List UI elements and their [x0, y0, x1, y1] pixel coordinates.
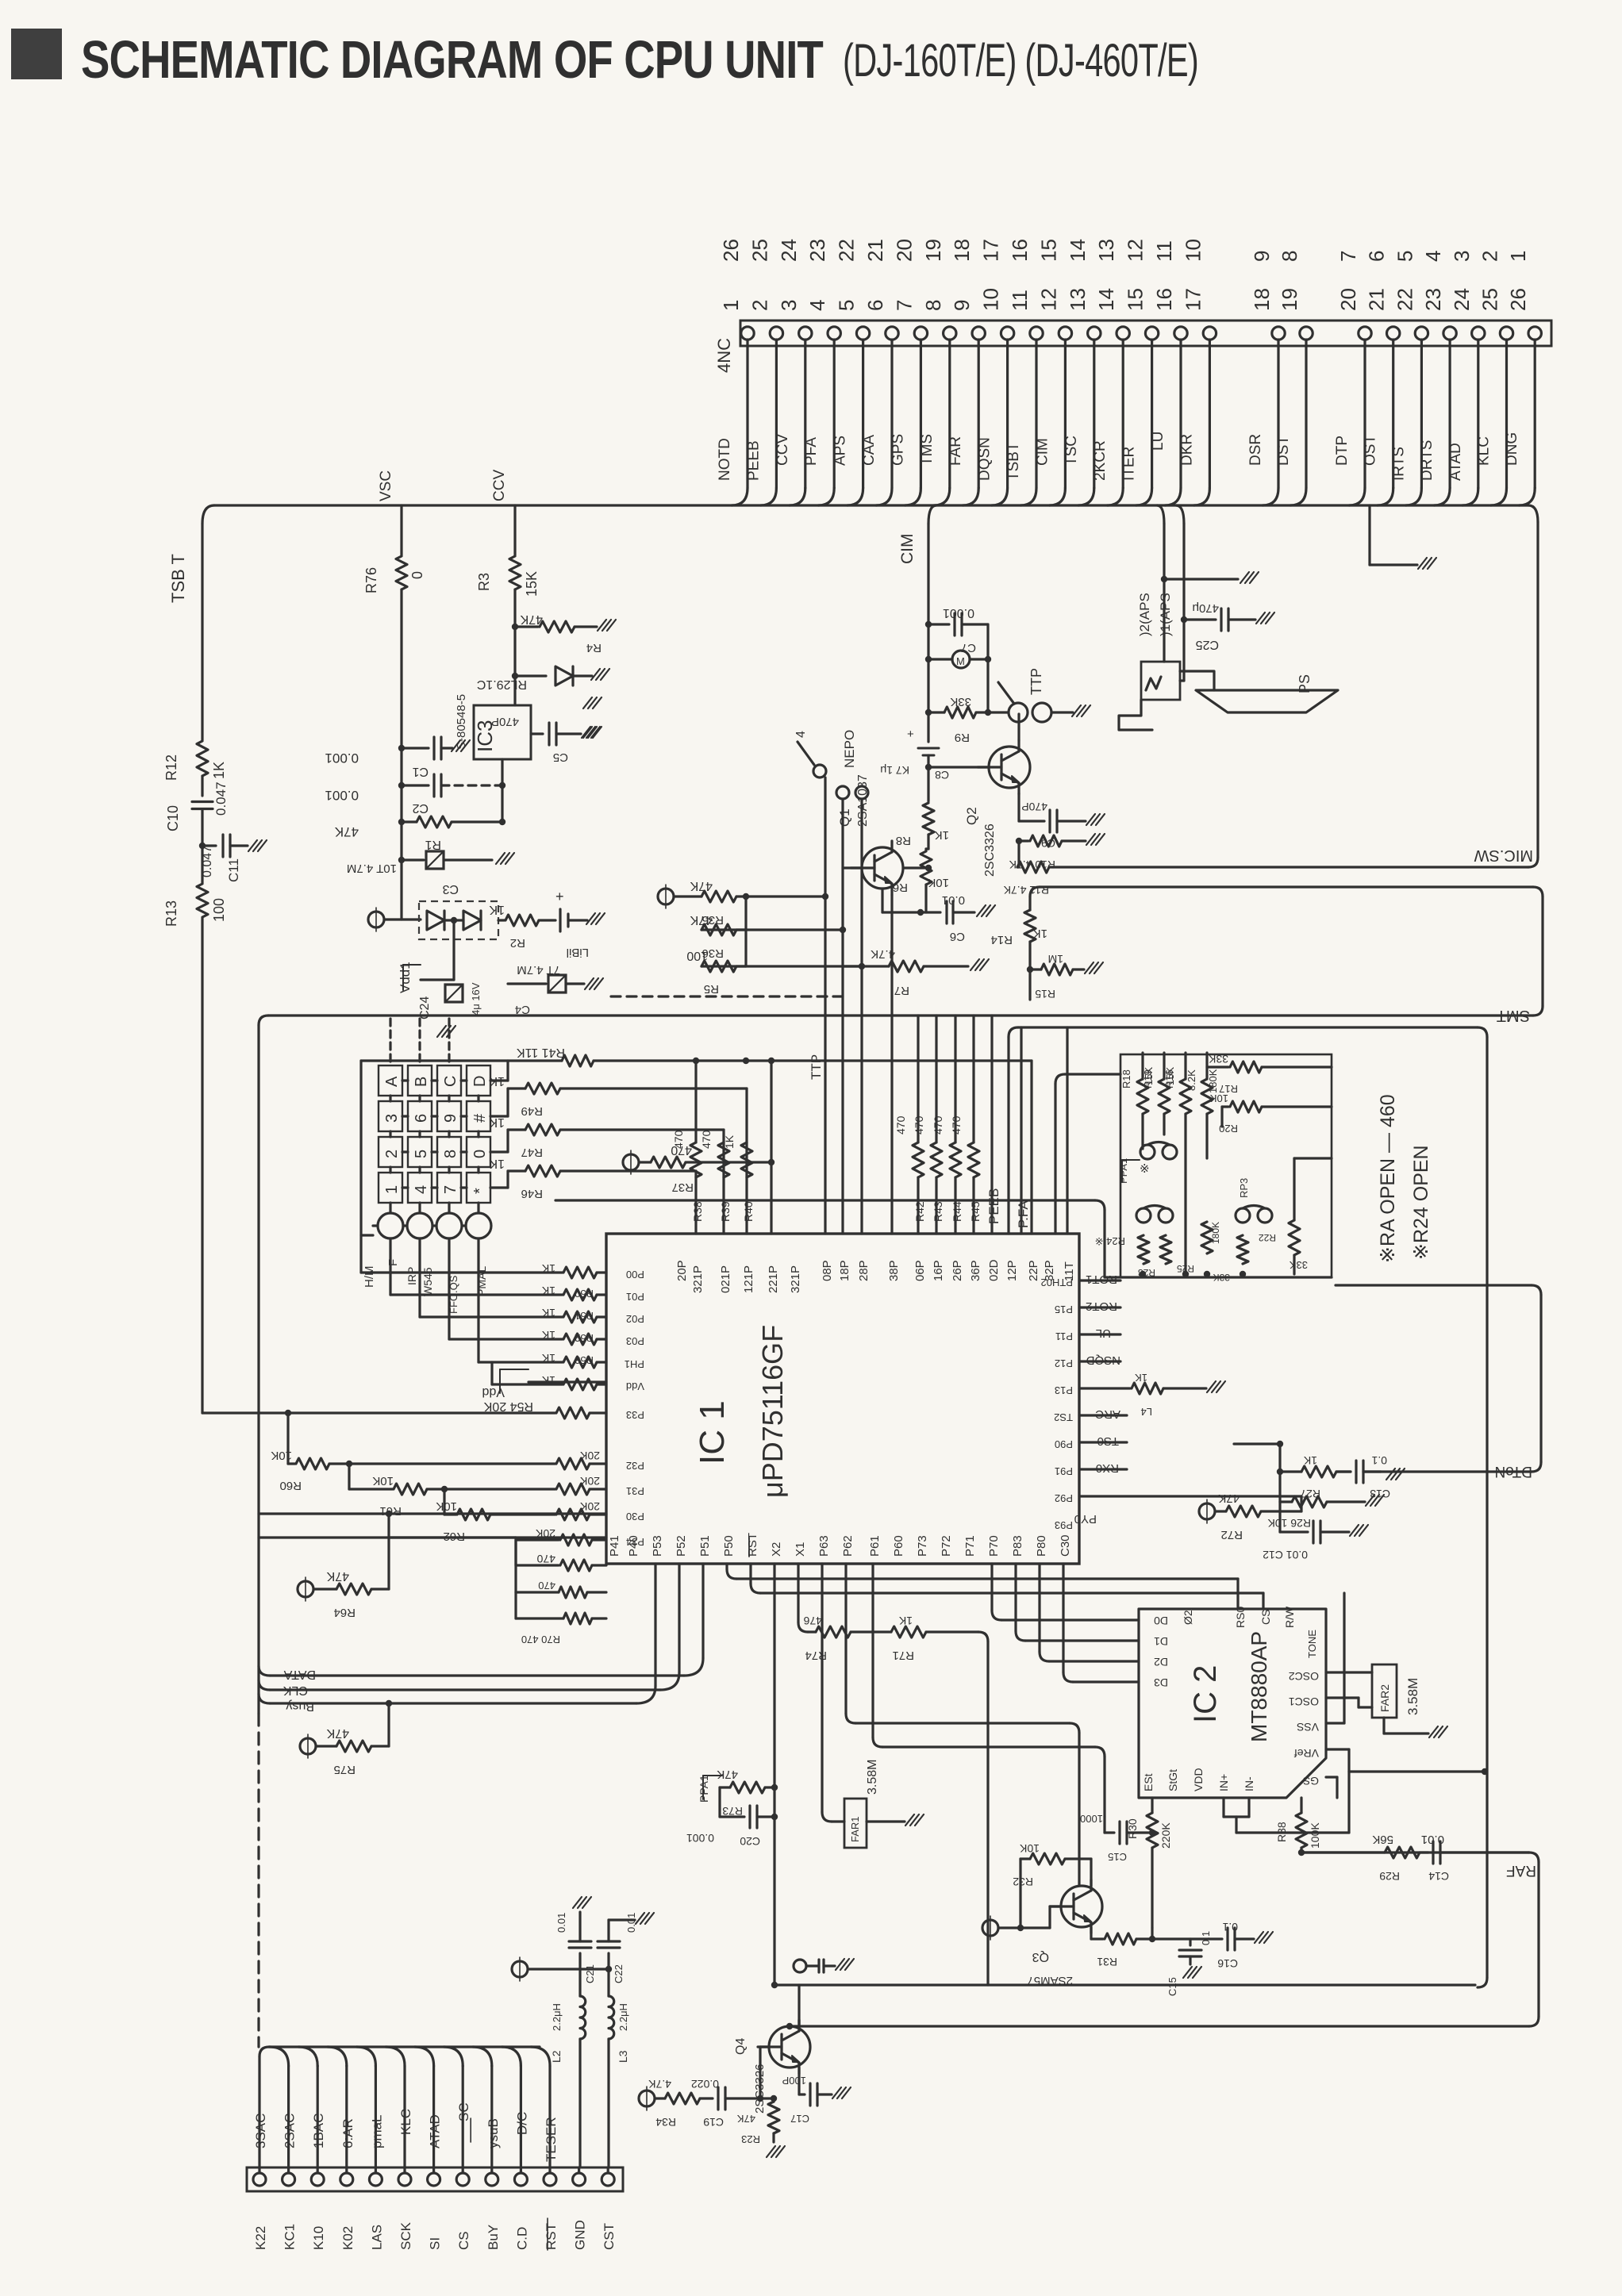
svg-text:IRP: IRP [405, 1267, 418, 1285]
wire [722, 1130, 725, 1234]
wire CN4 pin 17 [1209, 340, 1211, 488]
svg-text:S-80548-5: S-80548-5 [455, 694, 468, 750]
svg-text:Q3: Q3 [1032, 1950, 1049, 1964]
svg-text:33K: 33K [1290, 1259, 1308, 1271]
svg-text:FAR2: FAR2 [1378, 1684, 1391, 1712]
svg-text:X2: X2 [770, 1542, 783, 1557]
key B [408, 1065, 432, 1096]
resistor R49 (# row) [490, 1115, 508, 1117]
wire [607, 1969, 609, 1996]
wire CN4 pin 2 [775, 340, 778, 488]
svg-text:2SAM57: 2SAM57 [1027, 1974, 1073, 1987]
svg-text:SI: SI [428, 2237, 443, 2250]
svg-text:R24 ※: R24 ※ [1095, 1235, 1125, 1247]
svg-text:P11: P11 [1055, 1330, 1073, 1342]
svg-text:MIC.SW: MIC.SW [1474, 847, 1533, 864]
wire T BST trunk lower [201, 918, 203, 1413]
wire CN4 pin 22 [1420, 340, 1423, 488]
svg-text:R8: R8 [896, 834, 911, 847]
svg-text:2SA1037: 2SA1037 [856, 774, 870, 827]
resistor R45 [972, 1016, 974, 1142]
resistor R20 [1222, 1105, 1228, 1108]
svg-text:47K: 47K [690, 879, 713, 893]
CN4 pin 8 circle [944, 327, 956, 340]
wire [986, 624, 989, 712]
svg-text:47K: 47K [717, 1768, 738, 1781]
svg-text:TS0: TS0 [1097, 1434, 1119, 1448]
svg-text:C25: C25 [1196, 638, 1219, 651]
wire [841, 799, 844, 1234]
svg-text:1K: 1K [489, 1157, 505, 1170]
resistor R62 [443, 1489, 445, 1515]
svg-text:CIM: CIM [898, 534, 917, 565]
svg-text:MT8880AP: MT8880AP [1247, 1631, 1271, 1742]
svg-text:0.01 C12: 0.01 C12 [1263, 1549, 1308, 1561]
svg-text:R18: R18 [1120, 1069, 1132, 1088]
ground [586, 913, 595, 924]
wire dashed keypad top feeds [389, 1019, 391, 1065]
capacitor C15c [1151, 1928, 1153, 1939]
svg-text:RX0: RX0 [1096, 1461, 1119, 1475]
wire [492, 1383, 563, 1385]
svg-text:7: 7 [442, 1185, 459, 1194]
svg-text:RP3: RP3 [1238, 1178, 1250, 1198]
wire CN4 pin 25 [1505, 340, 1508, 488]
wire [1030, 1061, 1032, 1234]
wire CN4 pin 11 [1035, 340, 1037, 488]
ground [1085, 962, 1094, 973]
svg-text:C2: C2 [412, 801, 429, 815]
transistor Q2 [989, 747, 1030, 788]
wire SPA(1) [1176, 505, 1184, 524]
svg-text:47K: 47K [326, 1726, 349, 1740]
wire OSC2 [1326, 1671, 1372, 1673]
resistor keypad row 2 1K [563, 1289, 597, 1300]
wire CS [462, 2066, 464, 2173]
resistor R22 [1289, 1220, 1300, 1255]
diode D4 [463, 911, 481, 930]
svg-text:C15: C15 [1167, 1977, 1178, 1996]
resistor R55 [556, 1458, 590, 1469]
svg-text:10: 10 [979, 288, 1003, 311]
key 3 [379, 1101, 402, 1131]
svg-text:1: 1 [1506, 251, 1530, 262]
ground [496, 853, 505, 864]
svg-text:R49: R49 [521, 1104, 543, 1118]
resistor R27 [1301, 1466, 1336, 1477]
resistor R14 [1028, 897, 1031, 910]
CN4 pin 7 circle [914, 327, 927, 340]
wire key row link [402, 1186, 408, 1188]
svg-text:NOTD: NOTD [717, 438, 733, 481]
svg-text:3: 3 [777, 300, 801, 311]
svg-text:P53: P53 [651, 1535, 664, 1557]
capacitor C7 [928, 623, 949, 625]
svg-text:R72: R72 [1220, 1528, 1243, 1542]
svg-text:10K: 10K [271, 1449, 292, 1462]
wire CN4 pin 5 [862, 340, 864, 488]
svg-text:10: 10 [1181, 239, 1205, 262]
svg-text:4: 4 [805, 300, 829, 311]
key 6 [408, 1101, 432, 1131]
svg-text:C20: C20 [740, 1835, 760, 1848]
svg-text:CCV: CCV [491, 470, 508, 501]
wire Q1 collector [881, 889, 883, 912]
svg-text:R26 10K: R26 10K [1267, 1517, 1311, 1530]
resistor R38 [690, 1142, 701, 1177]
svg-text:0.001: 0.001 [943, 606, 974, 620]
wire CAS3 trunk [258, 2056, 260, 2173]
wire CN4 pin 24 [1477, 340, 1479, 488]
svg-text:2: 2 [1478, 251, 1502, 262]
CN3 pin 11 circle [544, 2173, 556, 2186]
svg-text:5: 5 [413, 1150, 430, 1158]
svg-text:FAR1: FAR1 [849, 1816, 861, 1842]
svg-text:C6: C6 [950, 930, 965, 943]
wire keypad common drop [389, 1238, 391, 1295]
wire keypad common drop [418, 1238, 421, 1317]
svg-text:R47: R47 [521, 1146, 543, 1159]
CN4 pin 25 circle [1500, 327, 1512, 340]
wire [421, 978, 454, 981]
resistor R72 with terminal [1199, 1503, 1215, 1519]
svg-text:TSB T: TSB T [168, 554, 188, 603]
svg-text:4μ 16V: 4μ 16V [470, 982, 482, 1016]
svg-text:C: C [442, 1076, 459, 1087]
svg-text:470P: 470P [1021, 801, 1047, 813]
ground [1256, 612, 1265, 624]
resistor R54 [556, 1407, 590, 1419]
svg-text:08P: 08P [821, 1260, 834, 1281]
svg-text:C30: C30 [1059, 1534, 1072, 1557]
svg-text:4: 4 [794, 731, 808, 738]
svg-text:R/W: R/W [1283, 1606, 1296, 1628]
svg-text:16P: 16P [932, 1260, 945, 1281]
svg-text:LAS: LAS [369, 2225, 384, 2250]
svg-text:ysuB: ysuB [486, 2118, 501, 2148]
svg-text:R6: R6 [893, 881, 908, 894]
resistor R32 [1020, 1857, 1030, 1860]
inductor L2 [580, 1996, 586, 2039]
svg-text:100: 100 [686, 949, 708, 962]
wire [201, 776, 203, 796]
svg-text:C7: C7 [961, 641, 976, 655]
svg-text:C17: C17 [790, 2113, 809, 2125]
capacitor C20 [718, 1787, 721, 1817]
svg-text:P32: P32 [626, 1460, 644, 1472]
ground [1350, 1525, 1359, 1536]
svg-text:1K: 1K [541, 1352, 555, 1365]
svg-text:10T 4.7M: 10T 4.7M [347, 862, 397, 875]
wire [1066, 1027, 1068, 1234]
wire DATA [432, 2066, 435, 2173]
svg-text:16: 16 [1008, 239, 1032, 262]
svg-text:R42: R42 [913, 1201, 926, 1222]
resistor R10 [1016, 838, 1022, 844]
wire [798, 1985, 800, 2026]
svg-text:321P: 321P [789, 1265, 802, 1293]
wire T BST trunk upper [201, 524, 203, 740]
svg-text:470: 470 [932, 1115, 944, 1135]
net label RX0 [1079, 1468, 1127, 1470]
key 4 [408, 1173, 432, 1203]
svg-text:※: ※ [1140, 1162, 1150, 1176]
resistor R6 [924, 849, 927, 850]
resistor R26 [1278, 1472, 1281, 1502]
svg-text:pmaL: pmaL [369, 2114, 384, 2148]
wire dashed [611, 995, 847, 997]
transistor Q1 [862, 847, 903, 889]
microphone M [952, 651, 970, 668]
svg-text:C15: C15 [1108, 1851, 1127, 1863]
svg-text:1: 1 [383, 1185, 401, 1194]
wire Q4 base [759, 2047, 761, 2098]
wire CN4 pin 8 [948, 340, 951, 488]
wire D3 row [1062, 1564, 1064, 1672]
svg-text:Vdd1: Vdd1 [398, 962, 413, 993]
svg-text:0.001: 0.001 [325, 788, 359, 803]
capacitor C16 [1152, 1937, 1222, 1940]
jumper J2 [1136, 1208, 1151, 1223]
svg-text:C.D: C.D [514, 2227, 529, 2250]
resistor R30 220K [1151, 1798, 1153, 1813]
svg-text:0.001: 0.001 [325, 751, 359, 766]
svg-text:TS2: TS2 [1054, 1411, 1073, 1423]
svg-text:RS0: RS0 [1234, 1607, 1247, 1628]
wire dashed to IC3 [468, 784, 502, 786]
svg-text:20: 20 [892, 239, 916, 262]
capacitor C6 [945, 901, 947, 923]
wire CN4 pin 15 [1151, 340, 1153, 488]
svg-text:DToN: DToN [1494, 1463, 1532, 1480]
wire MIC.SW bus right edge [1536, 522, 1539, 858]
wire keypad top [361, 1059, 562, 1062]
capacitor C19 [717, 2087, 719, 2110]
wire CN4 pin 6 [890, 340, 893, 488]
ground [437, 1026, 446, 1037]
ground [582, 727, 590, 738]
switch S1 OPEN [798, 742, 814, 765]
svg-text:4: 4 [413, 1185, 430, 1194]
wire T10 bus [1007, 1037, 1009, 1234]
trimmer C3 [402, 858, 424, 861]
svg-text:OSC1: OSC1 [1289, 1695, 1319, 1708]
wire [384, 918, 421, 920]
svg-text:ATAD: ATAD [428, 2114, 443, 2148]
svg-text:P52: P52 [675, 1535, 688, 1557]
svg-text:2: 2 [383, 1150, 401, 1158]
svg-text:SCHEMATIC DIAGRAM OF CPU UNIT: SCHEMATIC DIAGRAM OF CPU UNIT [81, 30, 824, 90]
wire CN4 pin 1 [746, 340, 748, 488]
wire [986, 1641, 989, 1985]
svg-text:23: 23 [1421, 288, 1445, 311]
svg-text:5: 5 [835, 300, 859, 311]
svg-text:1K: 1K [541, 1262, 555, 1275]
svg-text:CST: CST [602, 2223, 617, 2250]
wire [1382, 1718, 1385, 1734]
net label PY0 [1079, 1495, 1301, 1497]
svg-text:100: 100 [211, 898, 227, 922]
svg-text:DATA: DATA [283, 1668, 316, 1681]
svg-text:P.FA: P.FA [1016, 1200, 1031, 1228]
wire DTON bus [1336, 1284, 1532, 1286]
ground [1429, 1726, 1438, 1737]
wire bottom bus 1 [774, 1983, 1475, 1986]
svg-text:3.58M: 3.58M [1405, 1678, 1420, 1715]
svg-text:H/M: H/M [363, 1266, 376, 1288]
svg-text:P70: P70 [987, 1535, 1001, 1557]
wire VSS [1326, 1722, 1344, 1724]
svg-text:UL: UL [1096, 1327, 1111, 1340]
svg-text:13: 13 [1066, 288, 1090, 311]
svg-text:+: + [555, 889, 564, 904]
svg-text:0: 0 [409, 571, 425, 579]
resistor R11 [1017, 841, 1020, 867]
ground [248, 840, 257, 851]
wire CN4 pin 18 [1277, 340, 1279, 488]
svg-text:BuY: BuY [486, 2225, 501, 2250]
svg-text:24: 24 [777, 239, 801, 262]
transistor Q4 [769, 2026, 810, 2068]
capacitor C5 [531, 732, 543, 735]
wire Busy [490, 2066, 493, 2173]
svg-text:RST: RST [746, 1533, 759, 1557]
svg-text:17: 17 [979, 239, 1003, 262]
resistor R13 [197, 884, 208, 917]
key * [467, 1173, 490, 1203]
capacitor C1 [402, 747, 429, 749]
wire RST drop [725, 1564, 728, 1569]
wire key column link [389, 1096, 391, 1101]
svg-text:1K: 1K [541, 1284, 555, 1297]
svg-text:CS: CS [1259, 1610, 1272, 1625]
resistor R18 [1137, 1079, 1148, 1114]
wire GND pin riser [578, 2039, 581, 2167]
wire [452, 920, 455, 980]
wire [745, 1088, 748, 1234]
svg-text:KC1: KC1 [283, 2224, 298, 2250]
svg-text:P92: P92 [1055, 1492, 1073, 1504]
wire key column link [477, 1096, 479, 1101]
svg-text:33K: 33K [1208, 1053, 1228, 1065]
svg-text:PTH02: PTH02 [1041, 1277, 1073, 1288]
wire C/D [520, 2066, 522, 2173]
svg-text:R20: R20 [1219, 1123, 1238, 1135]
svg-text:X1: X1 [794, 1542, 807, 1557]
svg-text:P34: P34 [626, 1536, 644, 1548]
svg-text:1K: 1K [935, 828, 949, 842]
CN4 pin 26 circle [1528, 327, 1541, 340]
svg-text:R3: R3 [476, 573, 492, 591]
capacitor C13 [1336, 1470, 1351, 1472]
wire X2 drop [749, 1564, 751, 1584]
ground [598, 620, 606, 631]
wire [890, 895, 893, 1234]
wire [924, 885, 927, 912]
IC U2 MT8880AP [1139, 1609, 1326, 1798]
svg-text:D0: D0 [1154, 1614, 1168, 1627]
svg-text:PY0: PY0 [1074, 1512, 1097, 1526]
wire SMT bus [268, 1014, 1533, 1016]
ground [585, 978, 594, 989]
svg-text:021P: 021P [719, 1265, 732, 1293]
svg-text:28P: 28P [857, 1260, 871, 1281]
svg-text:VSC: VSC [378, 470, 394, 501]
svg-text:R9: R9 [955, 731, 970, 744]
svg-text:※RA OPEN — 460: ※RA OPEN — 460 [1377, 1094, 1399, 1263]
resistor R25 [1201, 1222, 1213, 1254]
wire [1164, 578, 1238, 580]
key 0 [467, 1137, 490, 1167]
svg-text:6:AR: 6:AR [340, 2118, 356, 2148]
resonator FAR1 [821, 1564, 823, 1812]
connector CN3 [247, 2167, 623, 2191]
svg-text:P50: P50 [722, 1535, 736, 1557]
svg-text:R13: R13 [163, 900, 179, 927]
CN3 pin 5 circle [369, 2173, 382, 2186]
resistor R38 100K [1300, 1798, 1302, 1813]
svg-text:1K: 1K [1303, 1454, 1317, 1467]
svg-text:0.1: 0.1 [1200, 1931, 1212, 1945]
wire CN4 pin 4 [833, 340, 836, 488]
CN4 pin 17 circle [1203, 327, 1216, 340]
svg-text:R71: R71 [892, 1649, 914, 1662]
resistor R35 [701, 891, 736, 902]
svg-text:P60: P60 [892, 1535, 905, 1557]
wire CN4 pin 3 [804, 340, 806, 488]
wire [1017, 714, 1020, 740]
svg-text:ARC: ARC [1095, 1407, 1120, 1421]
svg-text:15: 15 [1036, 239, 1060, 262]
svg-text:R14: R14 [990, 933, 1013, 946]
svg-text:20P: 20P [675, 1260, 689, 1281]
svg-text:P93: P93 [1055, 1519, 1073, 1531]
svg-text:180K: 180K [1207, 1069, 1219, 1093]
svg-text:0: 0 [471, 1150, 489, 1158]
svg-text:18: 18 [950, 239, 974, 262]
ground [1072, 705, 1081, 716]
capacitor C4a battery [559, 909, 561, 931]
wire key column link [448, 1096, 450, 1101]
svg-text:R12: R12 [163, 754, 179, 781]
wire CN4 pin 23 [1448, 340, 1451, 488]
ground [1240, 572, 1249, 583]
svg-text:2SC3326: 2SC3326 [983, 824, 997, 877]
svg-text:0.01: 0.01 [625, 1913, 637, 1933]
svg-text:15K: 15K [524, 571, 540, 597]
svg-text:R32: R32 [1013, 1876, 1033, 1888]
wire [770, 1162, 772, 1234]
svg-text:0.01: 0.01 [555, 1913, 567, 1933]
svg-text:0.001: 0.001 [686, 1832, 714, 1845]
CN4 pin 20 circle [1359, 327, 1371, 340]
svg-text:R31: R31 [1097, 1956, 1117, 1968]
resistor R4 [515, 625, 538, 628]
svg-text:0.1: 0.1 [1222, 1921, 1238, 1933]
resistor R28 180K [1201, 1079, 1213, 1114]
svg-text:R22: R22 [1259, 1232, 1276, 1243]
svg-text:L2: L2 [550, 2050, 563, 2063]
svg-text:LiBil: LiBil [567, 946, 589, 959]
svg-text:470: 470 [536, 1553, 555, 1565]
resistor R5 [744, 930, 747, 966]
ground [583, 727, 592, 738]
capacitor C5b 1000 [1103, 1817, 1105, 1833]
inductor L4 with resistor 1K [1079, 1387, 1130, 1389]
svg-text:P72: P72 [940, 1535, 953, 1557]
resistor R60 [286, 1413, 289, 1464]
ground [591, 669, 600, 680]
